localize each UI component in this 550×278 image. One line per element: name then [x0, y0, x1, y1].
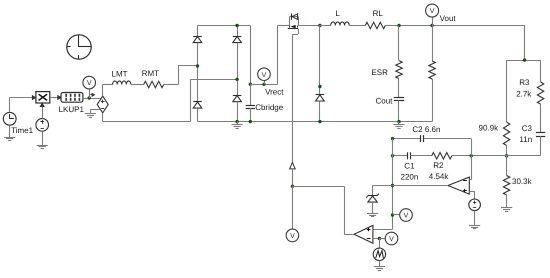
svg-text:Cout: Cout	[375, 97, 393, 106]
svg-text:ESR: ESR	[371, 68, 388, 77]
svg-text:RL: RL	[373, 9, 384, 18]
svg-text:C3: C3	[522, 124, 533, 133]
svg-text:V: V	[430, 8, 435, 15]
svg-text:C1: C1	[404, 162, 415, 171]
svg-text:Vout: Vout	[440, 14, 457, 23]
svg-text:Cbridge: Cbridge	[255, 103, 284, 112]
svg-text:V: V	[87, 80, 92, 87]
svg-text:30.3k: 30.3k	[512, 177, 533, 186]
svg-text:Time1: Time1	[11, 126, 33, 135]
svg-text:11n: 11n	[519, 135, 532, 144]
svg-text:V: V	[262, 72, 267, 79]
svg-text:90.9k: 90.9k	[479, 123, 500, 132]
svg-text:R3: R3	[519, 78, 530, 87]
svg-text:R2: R2	[433, 161, 444, 170]
svg-text:V: V	[389, 236, 394, 243]
svg-text:V: V	[290, 233, 295, 240]
svg-text:4.54k: 4.54k	[429, 172, 450, 181]
svg-text:V: V	[404, 213, 409, 220]
svg-text:L: L	[335, 9, 340, 18]
svg-text:LMT: LMT	[112, 69, 128, 78]
svg-text:2.7k: 2.7k	[516, 89, 532, 98]
svg-text:RMT: RMT	[142, 69, 159, 78]
svg-text:220n: 220n	[401, 173, 419, 182]
svg-text:Vrect: Vrect	[265, 87, 284, 96]
svg-text:C2 6.6n: C2 6.6n	[412, 125, 440, 134]
svg-text:LKUP1: LKUP1	[59, 105, 85, 114]
